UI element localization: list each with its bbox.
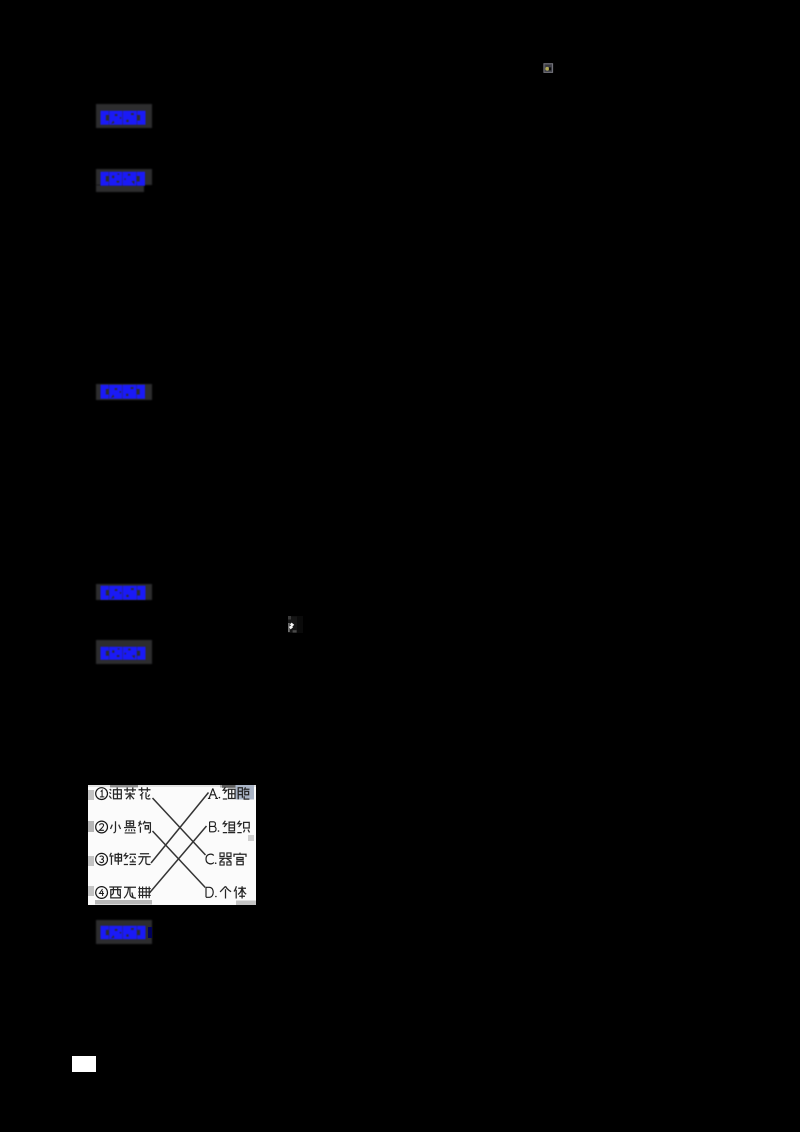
row C right	[206, 852, 246, 865]
row D right	[206, 886, 246, 898]
label 6 : answer tag	[96, 920, 152, 944]
label 1 : answer tag	[96, 104, 152, 129]
row A right	[208, 787, 250, 799]
row 1 left: circled 1 + three glyphs	[96, 787, 151, 799]
row 3 left	[96, 852, 151, 864]
row 4 left	[96, 886, 151, 898]
label 5 : analysis tag	[96, 640, 152, 664]
bottom-left white rectangle	[72, 1056, 96, 1072]
jpeg gray artifacts	[88, 785, 256, 787]
connection lines	[149, 792, 209, 893]
tiny missing-image icon top right	[543, 63, 554, 74]
row B right	[210, 820, 250, 832]
label 3 : answer tag	[96, 384, 152, 400]
row 2 left	[96, 820, 151, 832]
selection highlight on last glyph of row A	[236, 785, 255, 800]
label 2 : analysis tag	[96, 169, 152, 186]
small white squiggle icon mid page	[288, 616, 303, 633]
label 4 : answer tag	[96, 584, 152, 600]
matching diagram image	[88, 785, 256, 905]
